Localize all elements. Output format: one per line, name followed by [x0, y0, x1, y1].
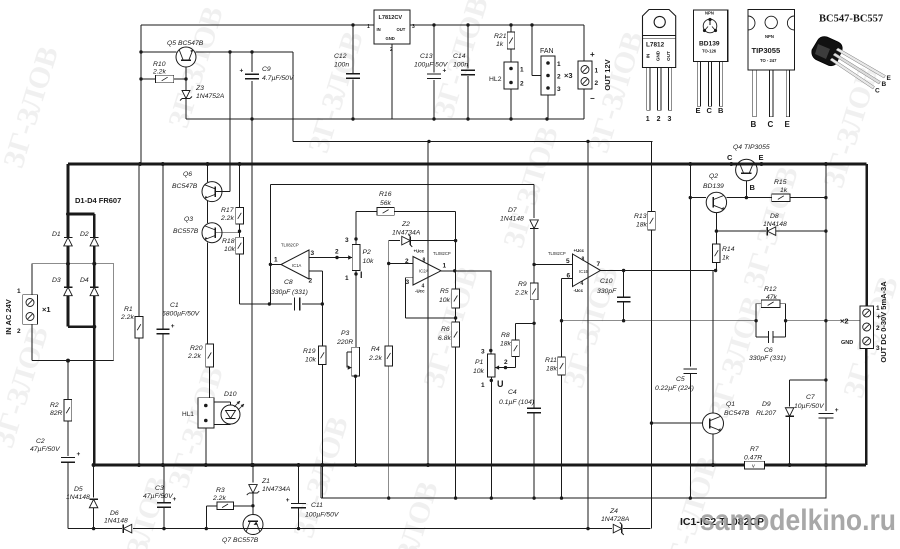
svg-text:E: E	[887, 75, 892, 82]
svg-text:C: C	[707, 106, 713, 115]
svg-text:B: B	[718, 106, 724, 115]
svg-text:10µF/50V: 10µF/50V	[794, 403, 825, 410]
svg-text:R5: R5	[440, 288, 449, 295]
svg-text:1: 1	[367, 24, 370, 30]
svg-text:Q2: Q2	[709, 173, 718, 180]
capacitor C7	[794, 394, 839, 498]
diode D3	[52, 277, 72, 296]
resistor R20	[187, 344, 213, 398]
connector FAN	[532, 25, 561, 119]
svg-text:+: +	[77, 451, 81, 458]
label D1-D4 FR607	[75, 196, 121, 205]
svg-text:+: +	[286, 497, 290, 504]
svg-text:1N4148: 1N4148	[500, 216, 524, 223]
svg-text:100µF/50V: 100µF/50V	[305, 512, 340, 519]
svg-text:1N4148: 1N4148	[763, 221, 787, 228]
svg-text:IN: IN	[377, 27, 381, 32]
svg-text:L7812: L7812	[646, 42, 665, 49]
svg-text:+: +	[835, 407, 839, 414]
svg-text:B: B	[750, 183, 756, 192]
svg-text:3: 3	[412, 24, 415, 30]
svg-text:2.2k: 2.2k	[514, 290, 528, 297]
wire feedback bus	[560, 319, 758, 322]
svg-text:Z3: Z3	[195, 85, 204, 92]
op-amp U1A IC1A	[269, 243, 315, 285]
svg-text:FAN: FAN	[540, 48, 554, 55]
svg-text:1: 1	[17, 288, 21, 295]
svg-text:IN AC 24V: IN AC 24V	[4, 299, 13, 335]
wire bridge mid nodes	[32, 246, 114, 363]
svg-text:1N4148: 1N4148	[104, 518, 128, 525]
op-amp U2A IC2A	[405, 141, 451, 464]
svg-text:+: +	[171, 323, 175, 330]
package drawing L7812 TO-220	[643, 10, 676, 124]
svg-text:2.2k: 2.2k	[152, 69, 166, 76]
svg-text:C9: C9	[262, 66, 271, 73]
svg-text:OUT: OUT	[397, 27, 406, 32]
potentiometer P2	[345, 211, 374, 282]
resistor R2	[50, 361, 72, 457]
svg-text:OUT 12V: OUT 12V	[603, 59, 612, 90]
wire bridge bottom node to negative rail	[68, 296, 96, 468]
svg-text:330pF (331): 330pF (331)	[749, 355, 786, 362]
svg-text:TL082CP: TL082CP	[281, 243, 299, 248]
svg-text:220R: 220R	[336, 339, 353, 346]
capacitor C1	[156, 164, 200, 465]
svg-text:2.2k: 2.2k	[368, 355, 382, 362]
package drawing BD139 TO-126	[694, 10, 728, 115]
svg-text:×2: ×2	[840, 317, 849, 326]
wire auxiliary column	[824, 164, 827, 411]
connector HL1 with LED D10	[182, 391, 244, 465]
connector X3 OUT 12V	[564, 25, 612, 119]
svg-text:1k: 1k	[722, 255, 730, 262]
svg-text:7: 7	[597, 261, 601, 268]
svg-text:Q6: Q6	[183, 171, 192, 178]
svg-text:P2: P2	[363, 249, 372, 256]
svg-text:10k: 10k	[363, 258, 375, 265]
svg-text:C11: C11	[311, 502, 323, 509]
svg-text:B: B	[882, 81, 887, 88]
svg-text:+: +	[590, 50, 595, 59]
wire +24V top rail to L7812 input	[139, 25, 374, 164]
svg-text:R4: R4	[371, 346, 380, 353]
regulator U3 L7812CV	[367, 10, 415, 119]
zener Z2	[389, 221, 458, 264]
svg-text:BD139: BD139	[699, 41, 720, 48]
resistor R18	[222, 224, 243, 304]
wire IC2A non-inverting loop	[405, 278, 457, 320]
svg-text:3: 3	[406, 279, 410, 286]
svg-text:47k: 47k	[766, 294, 778, 301]
svg-text:P1: P1	[475, 359, 484, 366]
transistor Q5	[141, 40, 204, 90]
capacitor C14	[453, 25, 475, 119]
wire +Ucc reference wire	[270, 185, 534, 304]
wire IC2A output	[441, 269, 491, 272]
svg-text:C5: C5	[676, 376, 685, 383]
svg-text:18k: 18k	[546, 366, 558, 373]
svg-text:10k: 10k	[439, 297, 451, 304]
svg-text:4.7µF/50V: 4.7µF/50V	[262, 75, 295, 82]
svg-text:IC1B: IC1B	[579, 269, 589, 274]
svg-text:R11: R11	[545, 357, 557, 364]
svg-text:R12: R12	[764, 286, 777, 293]
svg-text:82R: 82R	[50, 410, 63, 417]
svg-text:1N4734A: 1N4734A	[392, 230, 421, 237]
capacitor C4	[499, 389, 541, 498]
svg-text:TL082CP: TL082CP	[548, 251, 566, 256]
svg-text:+: +	[240, 68, 244, 75]
svg-text:6800µF/50V: 6800µF/50V	[162, 311, 201, 318]
svg-text:IC2A: IC2A	[419, 269, 429, 274]
wire bridge top node	[66, 164, 94, 238]
svg-text:2: 2	[309, 278, 313, 285]
svg-text:R14: R14	[722, 246, 735, 253]
svg-text:R1: R1	[124, 306, 133, 313]
resistor R9	[514, 265, 538, 409]
svg-text:Q1: Q1	[726, 401, 735, 408]
diode D7	[500, 185, 538, 265]
svg-text:2.2k: 2.2k	[212, 495, 226, 502]
svg-text:R17: R17	[221, 207, 234, 214]
svg-text:330pF: 330pF	[597, 288, 617, 295]
svg-text:R15: R15	[774, 179, 787, 186]
svg-text:C4: C4	[508, 389, 517, 396]
zener Z3	[180, 85, 225, 119]
svg-text:GND: GND	[841, 340, 853, 346]
svg-text:2: 2	[504, 359, 508, 366]
resistor R12 with capacitor C6	[749, 286, 787, 362]
svg-text:C1: C1	[170, 302, 179, 309]
svg-text:1: 1	[481, 382, 485, 389]
svg-text:2: 2	[405, 258, 409, 265]
svg-text:3: 3	[345, 237, 349, 244]
diode D5	[66, 465, 98, 529]
svg-text:Q7 BC557B: Q7 BC557B	[222, 537, 259, 544]
transistor Q3	[173, 201, 240, 344]
capacitor C11	[286, 465, 340, 529]
resistor R1	[120, 164, 143, 465]
resistor R7	[744, 446, 765, 470]
svg-text:HL1: HL1	[182, 411, 194, 418]
op-amp U1B IC1B	[548, 141, 601, 528]
svg-text:2: 2	[17, 328, 21, 335]
svg-text:2.2k: 2.2k	[120, 314, 134, 321]
svg-text:v: v	[752, 464, 755, 470]
svg-text:ѕamodelkino.ru: ѕamodelkino.ru	[700, 504, 896, 537]
svg-text:0.1µF (104): 0.1µF (104)	[499, 399, 534, 406]
svg-text:D7: D7	[508, 207, 517, 214]
svg-text:C6: C6	[764, 347, 773, 354]
svg-text:10k: 10k	[473, 368, 485, 375]
svg-text:1: 1	[595, 68, 599, 75]
svg-text:2: 2	[595, 80, 599, 87]
svg-text:2: 2	[557, 74, 561, 81]
connector X1 IN AC 24V	[4, 288, 51, 335]
svg-text:E: E	[785, 120, 791, 129]
svg-text:R13: R13	[634, 213, 647, 220]
svg-text:5: 5	[566, 258, 570, 265]
wire main +24V bold rail	[68, 162, 867, 166]
svg-text:×1: ×1	[42, 305, 51, 314]
svg-text:1N4148: 1N4148	[66, 494, 90, 501]
svg-text:C: C	[768, 120, 774, 129]
resistor R15	[772, 179, 828, 201]
svg-text:+Ucc: +Ucc	[574, 248, 585, 253]
wire IC2A inverting input	[387, 262, 413, 265]
svg-text:R18: R18	[222, 238, 235, 245]
svg-text:IN: IN	[646, 53, 651, 58]
wire aux ground rail	[186, 117, 584, 120]
svg-text:1: 1	[646, 116, 650, 123]
svg-text:R10: R10	[153, 61, 166, 68]
resistor R16	[356, 191, 456, 241]
svg-text:-Ucc: -Ucc	[415, 289, 425, 294]
wire IC1A output to P2 wiper	[309, 249, 352, 260]
svg-text:×3: ×3	[564, 71, 573, 80]
resistor R6	[438, 318, 459, 498]
svg-text:6.8k: 6.8k	[438, 335, 451, 342]
zener Z4	[601, 508, 630, 535]
svg-text:1k: 1k	[496, 41, 504, 48]
svg-text:47µF/50V: 47µF/50V	[143, 493, 174, 500]
svg-text:TO - 247: TO - 247	[760, 58, 777, 63]
svg-text:D8: D8	[770, 213, 779, 220]
svg-text:330pF (331): 330pF (331)	[271, 289, 308, 296]
diode D9	[756, 380, 826, 465]
svg-text:C3: C3	[155, 485, 164, 492]
svg-text:2.2k: 2.2k	[187, 353, 201, 360]
resistor R21	[494, 25, 515, 62]
svg-text:1: 1	[345, 275, 349, 282]
diode D4	[80, 277, 99, 296]
svg-text:C8: C8	[284, 279, 293, 286]
wire bold output positive column	[865, 164, 868, 306]
resistor R10	[141, 61, 188, 83]
transistor Q7	[222, 506, 263, 544]
svg-text:18k: 18k	[636, 222, 648, 229]
svg-text:3: 3	[668, 116, 672, 123]
svg-text:1: 1	[520, 67, 524, 74]
svg-text:-Ucc: -Ucc	[574, 288, 584, 293]
wire bottom negative return	[68, 527, 651, 530]
svg-text:R2: R2	[50, 402, 59, 409]
svg-text:C10: C10	[600, 278, 613, 285]
svg-text:D5: D5	[74, 486, 83, 493]
svg-text:4: 4	[581, 281, 584, 287]
svg-text:Z4: Z4	[609, 508, 618, 515]
svg-text:R9: R9	[518, 281, 527, 288]
svg-text:TL082CP: TL082CP	[433, 251, 451, 256]
svg-text:BC547B: BC547B	[172, 183, 198, 190]
svg-text:R6: R6	[441, 326, 450, 333]
connector HL2	[489, 62, 524, 119]
svg-text:8: 8	[423, 258, 426, 264]
svg-text:2: 2	[335, 249, 339, 256]
resistor R17	[220, 164, 243, 224]
svg-text:D4: D4	[80, 277, 89, 284]
capacitor C8	[240, 255, 324, 310]
capacitor C9	[240, 52, 295, 119]
svg-text:56k: 56k	[380, 200, 392, 207]
svg-text:0.47R: 0.47R	[744, 455, 762, 462]
resistor R14	[713, 244, 735, 271]
wire bold output ground column	[865, 349, 868, 466]
svg-text:Q5 BC547B: Q5 BC547B	[167, 40, 204, 47]
svg-text:0.22µF (224): 0.22µF (224)	[655, 385, 694, 392]
svg-text:RL207: RL207	[756, 410, 776, 417]
diode D1	[52, 231, 72, 246]
svg-text:R7: R7	[750, 446, 759, 453]
resistor R3	[206, 487, 254, 529]
svg-text:IC1A: IC1A	[292, 263, 302, 268]
transistor Q1	[652, 401, 750, 465]
svg-text:C13: C13	[420, 53, 433, 60]
svg-text:U: U	[497, 379, 504, 389]
svg-text:R3: R3	[216, 487, 225, 494]
svg-text:C12: C12	[334, 53, 347, 60]
svg-text:2.2k: 2.2k	[220, 215, 234, 222]
resistor R13	[634, 141, 655, 528]
potentiometer P1	[473, 271, 504, 498]
connector X2 OUT DC	[840, 281, 888, 363]
capacitor C3	[143, 465, 177, 529]
svg-text:1N4728A: 1N4728A	[601, 516, 630, 523]
capacitor C5	[655, 164, 697, 498]
resistor R5	[439, 241, 459, 318]
svg-text:3: 3	[311, 250, 315, 257]
svg-text:1: 1	[557, 61, 561, 68]
svg-text:47µF/50V: 47µF/50V	[30, 446, 61, 453]
svg-text:OUT DC 0-30V 5mA-3A: OUT DC 0-30V 5mA-3A	[879, 281, 888, 363]
svg-text:C14: C14	[453, 53, 466, 60]
svg-text:1: 1	[443, 263, 447, 270]
svg-text:BD139: BD139	[703, 183, 724, 190]
svg-text:1k: 1k	[780, 187, 788, 194]
svg-text:2: 2	[657, 116, 661, 123]
svg-text:C: C	[875, 88, 880, 95]
capacitor C13	[414, 25, 449, 119]
svg-text:Q3: Q3	[184, 216, 193, 223]
svg-text:Z2: Z2	[401, 221, 410, 228]
wire main negative bold rail	[94, 463, 867, 467]
svg-text:R20: R20	[190, 345, 203, 352]
wire output positive feed	[786, 320, 860, 322]
svg-text:3: 3	[481, 349, 485, 356]
diode D6	[104, 510, 132, 533]
resistor R19	[303, 304, 326, 498]
svg-text:100µF 50V: 100µF 50V	[414, 62, 449, 69]
svg-text:TIP3055: TIP3055	[752, 46, 781, 55]
svg-text:18k: 18k	[500, 341, 512, 348]
wire IC1B output	[601, 269, 718, 272]
svg-text:Q4 TIP3055: Q4 TIP3055	[733, 144, 770, 151]
wire IC1B non-inverting input	[532, 263, 572, 266]
svg-text:1: 1	[274, 257, 278, 264]
svg-text:C7: C7	[806, 394, 815, 401]
svg-text:BC547-BC557: BC547-BC557	[819, 14, 883, 25]
resistor R8	[495, 323, 534, 369]
transistor Q6	[172, 52, 230, 202]
svg-text:E: E	[759, 153, 764, 162]
wire Q1 collector column	[712, 271, 714, 414]
svg-text:D1: D1	[52, 231, 61, 238]
capacitor C2	[30, 438, 81, 529]
svg-text:+Ucc: +Ucc	[414, 249, 425, 254]
svg-text:R8: R8	[501, 332, 510, 339]
svg-text:+: +	[173, 496, 177, 503]
label IC1-IC2 TL082CP	[680, 516, 764, 528]
transistor Q4 TIP3055	[727, 144, 770, 199]
svg-text:C2: C2	[36, 438, 45, 445]
svg-text:100n: 100n	[453, 62, 468, 69]
svg-text:10k: 10k	[224, 246, 236, 253]
capacitor C12	[334, 25, 360, 119]
wire +Ucc feed rail	[293, 140, 653, 143]
svg-text:3: 3	[557, 86, 561, 93]
svg-text:TO-126: TO-126	[702, 49, 717, 54]
wire collector bus	[321, 465, 826, 500]
svg-text:D10: D10	[224, 391, 237, 398]
svg-text:2: 2	[520, 81, 524, 88]
svg-text:R19: R19	[303, 348, 316, 355]
svg-text:2: 2	[390, 47, 393, 53]
svg-text:C: C	[727, 153, 733, 162]
svg-text:−: −	[590, 94, 595, 103]
diode D2	[80, 231, 99, 246]
svg-text:E: E	[696, 106, 701, 115]
svg-text:NPN: NPN	[765, 34, 774, 39]
resistor R11	[545, 321, 565, 498]
svg-text:1N4734A: 1N4734A	[262, 486, 291, 493]
svg-text:D1-D4 FR607: D1-D4 FR607	[75, 196, 121, 205]
svg-text:BC547B: BC547B	[724, 410, 750, 417]
svg-text:100n: 100n	[334, 62, 349, 69]
svg-text:R16: R16	[379, 191, 392, 198]
svg-text:P3: P3	[341, 330, 350, 337]
svg-text:I: I	[360, 270, 363, 280]
svg-text:8: 8	[582, 257, 585, 263]
diode D8	[715, 213, 828, 235]
capacitor C10	[597, 271, 630, 321]
svg-text:D9: D9	[762, 401, 771, 408]
wire Q5 emitter to +12V feed	[195, 50, 293, 141]
svg-text:D6: D6	[110, 510, 119, 517]
resistor R4	[368, 264, 393, 499]
package drawing TIP3055 TO-247	[748, 9, 794, 129]
transistor Q2 BD139	[689, 173, 772, 244]
potentiometer P3	[336, 271, 359, 466]
transistor photo BC547-BC557	[812, 14, 892, 95]
wire IC1B inverting loop	[562, 279, 573, 321]
svg-text:1N4752A: 1N4752A	[196, 93, 225, 100]
svg-text:R21: R21	[494, 33, 507, 40]
svg-text:HL2: HL2	[489, 76, 502, 83]
svg-text:NPN: NPN	[705, 11, 714, 16]
svg-text:GND: GND	[656, 50, 661, 61]
svg-text:D3: D3	[52, 277, 61, 284]
wire L7812 output 12V rail	[351, 23, 584, 26]
svg-text:D2: D2	[80, 231, 89, 238]
svg-text:BC557B: BC557B	[173, 228, 199, 235]
wire aux-gnd tie column	[251, 119, 253, 465]
svg-text:B: B	[751, 120, 757, 129]
svg-text:OUT: OUT	[666, 51, 671, 61]
svg-text:L7812CV: L7812CV	[379, 15, 403, 21]
zener Z1	[247, 465, 291, 506]
svg-text:10k: 10k	[305, 357, 317, 364]
